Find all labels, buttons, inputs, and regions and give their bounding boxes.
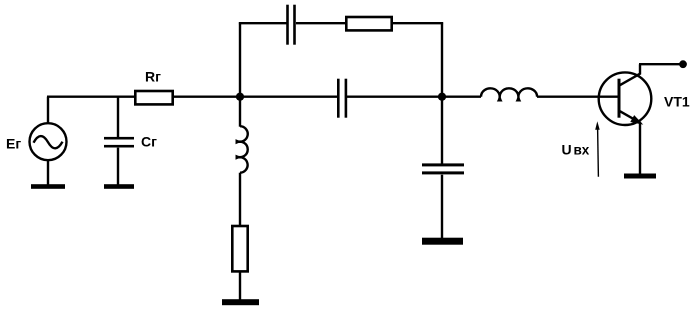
wire: source bottom to ground <box>47 160 49 186</box>
wire: Rg to node A <box>173 95 240 97</box>
source Eg (sine generator) <box>30 123 67 160</box>
wire: middle capacitor to node B <box>347 95 442 97</box>
resistor R2 (vertical) <box>232 226 247 271</box>
wire: resistor R2 to ground <box>239 272 241 301</box>
wire: node A to middle capacitor <box>240 95 337 97</box>
ground (emitter) <box>624 174 656 179</box>
svg-text:VT1: VT1 <box>664 94 690 110</box>
transistor VT1 <box>599 64 652 125</box>
wire: top branch right vertical down to node B <box>441 22 443 97</box>
ground (C3) <box>422 238 463 245</box>
wire: top branch left segment <box>239 22 287 24</box>
wire: main rail from source to Rg <box>47 95 135 97</box>
svg-text:U: U <box>562 142 572 158</box>
capacitor Cg <box>104 137 134 148</box>
resistor R1 (top branch) <box>346 17 391 30</box>
wire: node B to inductor L2 <box>442 95 481 97</box>
wire: Cg top <box>117 97 119 138</box>
ground (Cg) <box>104 184 134 189</box>
svg-text:Rг: Rг <box>145 69 161 85</box>
wire: collector to terminal <box>639 63 683 65</box>
wire: inductor L1 to resistor R2 <box>239 173 241 226</box>
svg-text:Cг: Cг <box>141 134 157 150</box>
resistor Rg <box>135 91 172 104</box>
node: collector terminal dot <box>679 60 687 68</box>
wire: top branch resistor to right corner <box>392 22 443 24</box>
label Uvx <box>562 142 590 158</box>
wire: top branch cap to resistor <box>296 22 346 24</box>
svg-text:Eг: Eг <box>6 136 21 152</box>
inductor L1 (vertical) <box>237 126 248 173</box>
wire: node A down to inductor L1 <box>239 97 241 127</box>
ground (R2) <box>222 299 259 305</box>
node A <box>236 93 244 101</box>
wire: inductor L2 to transistor base <box>537 95 618 97</box>
wire: node B down to capacitor C3 <box>441 97 443 165</box>
capacitor C2 (middle, series) <box>337 79 347 118</box>
svg-text:вх: вх <box>574 143 590 158</box>
node B <box>438 93 446 101</box>
capacitor C1 (top branch) <box>286 5 296 45</box>
ground (source) <box>31 184 65 189</box>
inductor L2 (horizontal) <box>481 88 537 100</box>
wire: Cg bottom to ground <box>117 148 119 186</box>
arrow Uvx (input voltage) <box>595 121 600 177</box>
capacitor C3 (to ground) <box>422 163 464 174</box>
wire: capacitor C3 to ground <box>441 175 443 239</box>
wire: node A up to top branch <box>239 22 241 97</box>
wire: source top to main rail <box>47 97 49 124</box>
wire: emitter down to ground <box>639 122 641 175</box>
